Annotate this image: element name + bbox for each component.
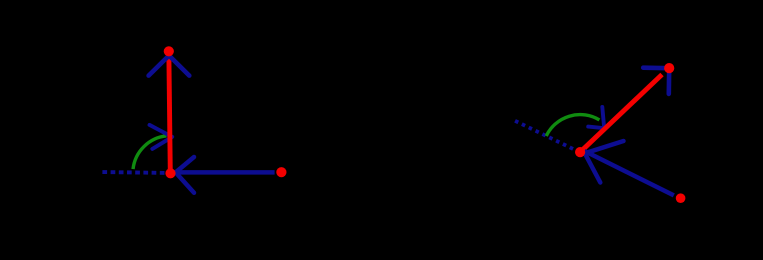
right diagram: center red point (scattering centre): [575, 147, 585, 157]
right diagram: lower-right red point: [676, 193, 686, 203]
left diagram: red outgoing vector (vertical): [169, 57, 170, 173]
left diagram: blue arrowhead of outgoing vector (points up): [149, 56, 190, 76]
right diagram: blue incoming vector line (from lower-right dot to center): [585, 151, 674, 195]
left diagram: blue incoming vector line (from right dot to center): [172, 170, 275, 175]
right diagram: red outgoing vector (up-right): [582, 75, 663, 151]
right diagram: blue arrowhead of incoming vector (points up-left, tip at center): [585, 141, 624, 183]
left diagram: top red point: [164, 46, 174, 56]
right diagram: dashed continuation of incoming trajectory: [515, 121, 573, 149]
right diagram: top-right red point: [664, 63, 674, 73]
right diagram: green deflection-angle arc: [546, 115, 599, 136]
left diagram: green deflection-angle arc: [133, 136, 167, 169]
right diagram: arc arrowhead (points south-east, tip on red line): [588, 107, 604, 128]
left diagram: incoming trajectory dashed continuation: [99, 170, 165, 175]
left diagram: arc arrowhead (points east, tip on red line): [150, 125, 173, 149]
left diagram: right red point: [276, 167, 286, 177]
left diagram: center red point (scattering centre): [165, 168, 175, 178]
left diagram: blue arrowhead of incoming vector (points west, tip at center): [176, 157, 194, 193]
right diagram: blue arrowhead of outgoing vector (points north-east): [643, 68, 669, 94]
